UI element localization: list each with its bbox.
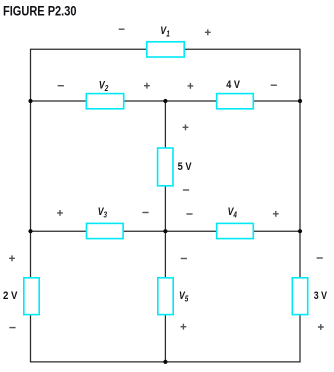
voltage source 4 V — [188, 79, 277, 109]
wire: right conductor (through 3 V source) — [299, 49, 301, 362]
5 V polarity minus — [183, 189, 189, 191]
V5 polarity minus — [181, 258, 187, 260]
figure caption "FIGURE P2.30" — [3, 4, 77, 20]
4 V polarity minus — [271, 84, 277, 86]
junction: node at right of third row — [298, 229, 302, 233]
junction: node at middle of third row — [163, 229, 167, 233]
junction: node at left of second row — [28, 99, 32, 103]
svg-text:V5: V5 — [179, 290, 189, 304]
2 V polarity minus — [9, 327, 15, 329]
wire: second-row conductor (through V2 and 4 V) — [31, 100, 301, 102]
svg-text:3 V: 3 V — [314, 290, 328, 302]
voltage source V2 — [58, 79, 150, 108]
3 V polarity plus — [318, 324, 324, 330]
junction: node at left of third row — [28, 229, 32, 233]
V2 body — [86, 94, 123, 109]
V4 body — [217, 223, 254, 238]
voltage source V1 — [119, 25, 211, 57]
3 V body — [292, 278, 307, 315]
svg-text:V2: V2 — [99, 79, 109, 93]
V1 polarity plus — [205, 29, 211, 35]
svg-text:V1: V1 — [160, 25, 170, 39]
wire: bottom conductor — [30, 361, 301, 363]
voltage source V4 — [186, 206, 278, 239]
2 V body — [24, 278, 39, 315]
5 V body — [158, 148, 173, 186]
wire: third-row conductor (through V3 and V4) — [31, 230, 301, 232]
5 V polarity plus — [183, 124, 189, 130]
V4 polarity plus — [273, 211, 279, 217]
2 V polarity plus — [9, 255, 15, 261]
voltage source 2 V — [3, 255, 39, 327]
junction: node at middle of second row — [163, 99, 167, 103]
V3 body — [87, 223, 124, 238]
V4 polarity minus — [186, 213, 192, 215]
voltage source V5 — [158, 259, 189, 330]
3 V polarity minus — [317, 257, 323, 259]
junction: node at middle of bottom conductor — [163, 360, 167, 364]
V1 body — [147, 42, 184, 57]
svg-text:4 V: 4 V — [226, 79, 240, 91]
4 V polarity plus — [188, 83, 194, 89]
voltage source 5 V — [158, 124, 192, 190]
wire: top conductor (through V1) — [31, 48, 301, 50]
svg-text:V3: V3 — [98, 206, 108, 220]
V5 body — [158, 278, 173, 315]
V3 polarity minus — [142, 212, 148, 214]
svg-text:V4: V4 — [228, 206, 238, 220]
V3 polarity plus — [57, 210, 63, 216]
svg-text:5 V: 5 V — [178, 161, 192, 173]
voltage source 3 V — [292, 258, 327, 330]
voltage source V3 — [57, 206, 149, 239]
svg-text:FIGURE P2.30: FIGURE P2.30 — [3, 4, 77, 20]
junction: node at right of second row — [298, 99, 302, 103]
V5 polarity plus — [181, 324, 187, 330]
svg-text:2 V: 2 V — [3, 290, 18, 302]
4 V body — [217, 94, 254, 109]
wire: middle vertical conductor (through 5 V and V5) — [164, 101, 166, 362]
wire: left conductor (through 2 V source) — [30, 49, 32, 362]
V2 polarity plus — [144, 83, 150, 89]
V2 polarity minus — [58, 85, 64, 87]
V1 polarity minus — [119, 28, 125, 30]
